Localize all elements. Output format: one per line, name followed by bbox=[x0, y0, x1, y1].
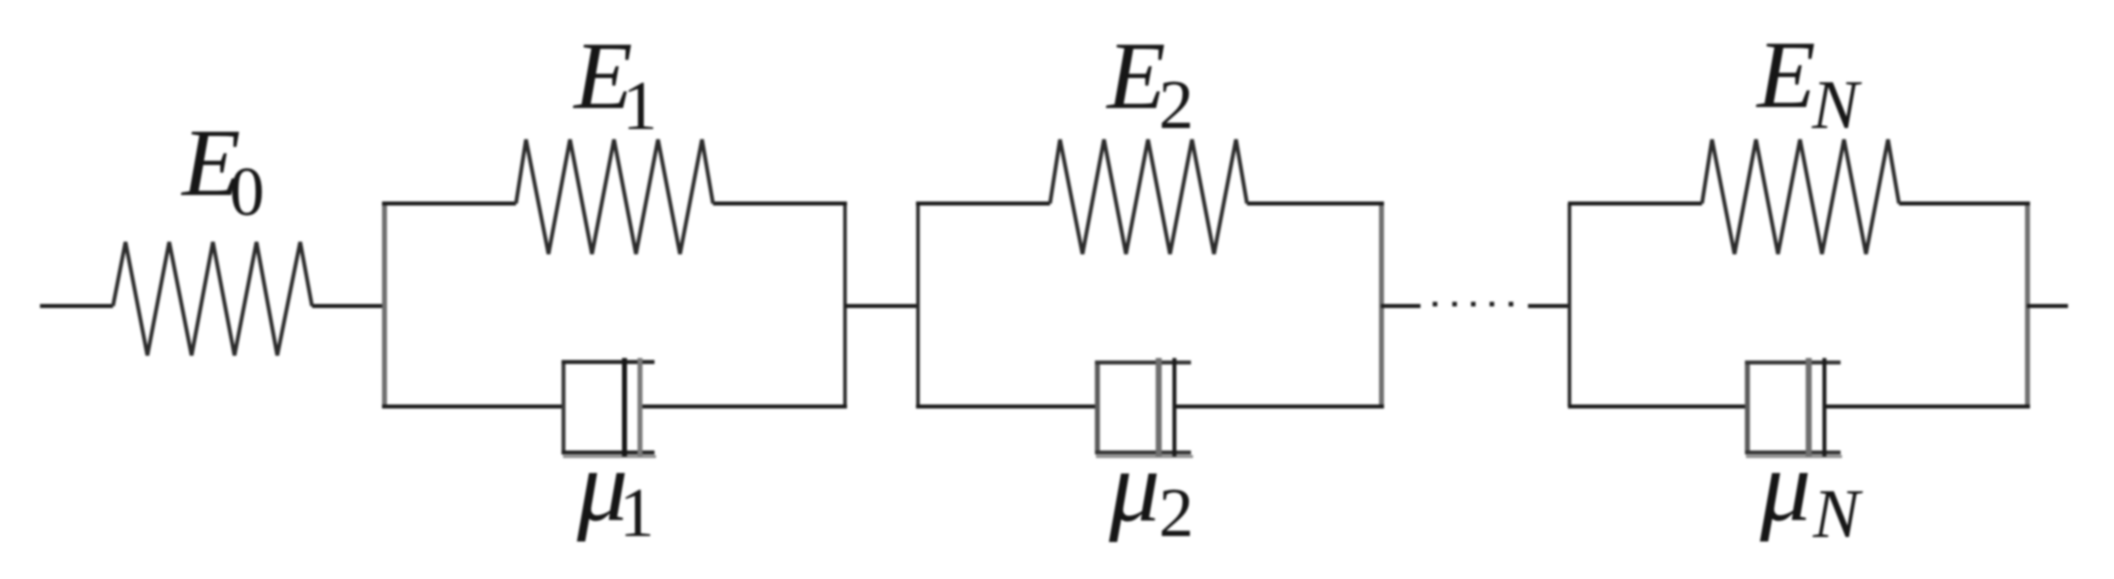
dashpot muN cylinder bbox=[1745, 361, 1750, 454]
svg-text:E: E bbox=[1755, 21, 1816, 128]
dashpot mu1 right wall bbox=[638, 358, 643, 457]
box1 top edge segments bbox=[382, 202, 516, 206]
Kelvin unit 2 box right edge bbox=[1379, 204, 1384, 407]
svg-text:2: 2 bbox=[1159, 67, 1194, 144]
dashpot muN right wall bbox=[1822, 358, 1826, 457]
dotted continuation bbox=[1433, 302, 1438, 307]
Kelvin unit 1 box left edge bbox=[382, 204, 387, 407]
left lead wire bbox=[40, 304, 113, 308]
svg-text:0: 0 bbox=[230, 154, 265, 231]
svg-text:2: 2 bbox=[1159, 475, 1194, 552]
svg-text:N: N bbox=[1811, 67, 1862, 144]
Kelvin unit N box left edge bbox=[1568, 204, 1572, 407]
svg-text:N: N bbox=[1812, 476, 1863, 553]
dashpot mu2 cylinder bbox=[1095, 361, 1100, 454]
wire box1 to box2 bbox=[845, 304, 918, 308]
right lead wire bbox=[2027, 304, 2068, 308]
wire dots to boxN bbox=[1528, 304, 1570, 308]
Kelvin unit N box right edge bbox=[2025, 204, 2030, 407]
box2 bottom edge segments bbox=[916, 405, 1097, 409]
dashpot muN piston plate bbox=[1806, 358, 1812, 457]
Kelvin unit 1 box right edge bbox=[843, 204, 847, 407]
wire E0 to box1 bbox=[312, 304, 384, 308]
box1 bottom edge segments bbox=[382, 405, 564, 409]
svg-text:E: E bbox=[1105, 22, 1166, 129]
boxN bottom edge segments bbox=[1568, 405, 1747, 409]
boxN top edge segments bbox=[1568, 202, 1702, 206]
dashpot mu2 piston plate bbox=[1156, 358, 1162, 457]
wire box2 to dots bbox=[1381, 304, 1421, 308]
Kelvin unit 2 box left edge bbox=[916, 204, 920, 407]
box2 top edge segments bbox=[916, 202, 1050, 206]
dashpot mu1 piston plate bbox=[622, 358, 627, 457]
spring E0 bbox=[113, 242, 312, 355]
svg-text:μ: μ bbox=[1108, 431, 1160, 544]
spring E2 bbox=[1050, 140, 1247, 255]
svg-text:1: 1 bbox=[622, 68, 657, 145]
dashpot mu1 cylinder bbox=[562, 361, 566, 454]
spring E1 bbox=[516, 140, 713, 255]
svg-text:1: 1 bbox=[619, 475, 654, 552]
dashpot mu2 right wall bbox=[1172, 358, 1176, 457]
svg-text:μ: μ bbox=[1759, 430, 1811, 543]
spring EN bbox=[1702, 140, 1899, 255]
